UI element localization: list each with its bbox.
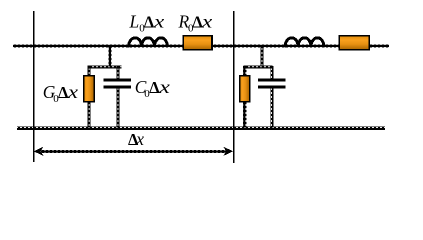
svg-text:x: x [158,77,170,97]
svg-text:x: x [67,82,79,102]
svg-text:x: x [153,12,165,32]
svg-text:L: L [129,12,140,32]
svg-text:x: x [135,129,144,149]
svg-text:x: x [201,12,213,32]
